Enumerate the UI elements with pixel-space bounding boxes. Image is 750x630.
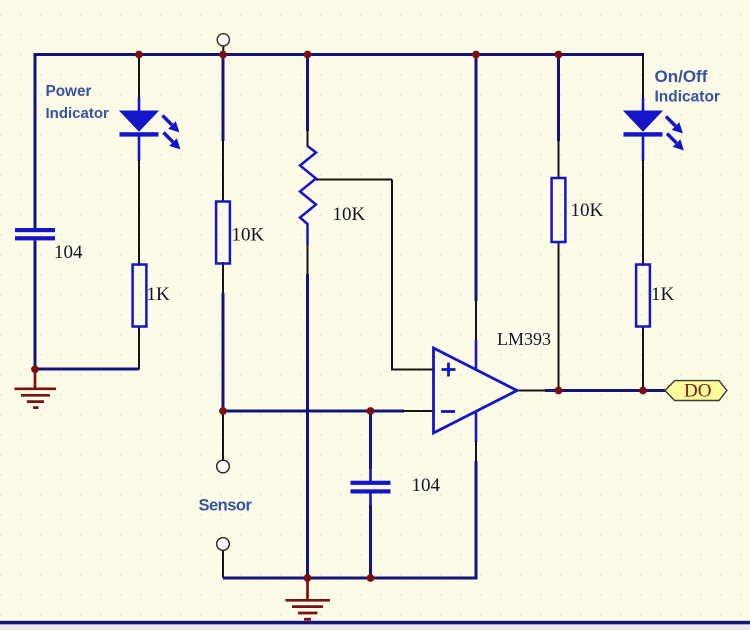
pin sensor terminal 1 <box>222 411 224 460</box>
junction (370,578) <box>367 574 375 582</box>
pin pot bottom <box>307 244 309 275</box>
wire pot bottom to gnd bus <box>306 274 309 578</box>
LED D1 power indicator <box>120 111 180 148</box>
junction (307,55) <box>304 51 312 59</box>
port DO flag <box>665 381 727 402</box>
lead op-amp VCC blue stub <box>475 340 478 370</box>
svg-text:Power: Power <box>46 83 92 100</box>
junction (558,390) <box>555 387 563 395</box>
terminal VCC top <box>217 34 229 54</box>
svg-text:1K: 1K <box>651 284 675 305</box>
pin LED1 to R2 <box>138 160 140 266</box>
wire R3 column top <box>557 55 560 142</box>
junction (370,411) <box>367 407 375 415</box>
pin R1 bottom <box>222 262 224 294</box>
potentiometer RP1 10K zigzag <box>300 146 316 224</box>
lead LED2 cathode blue <box>642 136 645 161</box>
pin LED1 top <box>138 55 140 99</box>
wire R1 column upper (bus to R1) <box>222 55 225 142</box>
sheet bottom border <box>0 621 750 625</box>
wire op-amp power column <box>475 55 478 302</box>
capacitor C1 104 left <box>15 228 55 240</box>
pin op-amp minus input <box>403 410 433 412</box>
junction (476,55) <box>472 51 480 59</box>
junction (35,368) <box>31 365 39 373</box>
svg-text:Indicator: Indicator <box>655 89 720 106</box>
lead LED1 anode blue <box>138 97 141 112</box>
resistor R3 10K right <box>552 178 566 242</box>
svg-text:104: 104 <box>54 242 83 263</box>
junction (558,55) <box>555 51 563 59</box>
wire top bus with left VCC rail <box>35 55 643 229</box>
capacitor C2 104 center <box>351 481 391 494</box>
pin R2 bottom <box>138 326 140 370</box>
wire R1 bottom to minus net <box>222 293 225 411</box>
wire cap2 bottom lead <box>369 505 372 578</box>
svg-text:104: 104 <box>412 475 441 496</box>
junction (223,55) <box>219 51 227 59</box>
terminal sensor 2 <box>217 538 230 551</box>
svg-text:10K: 10K <box>571 200 604 221</box>
wire cap1 bottom lead <box>34 241 37 370</box>
junction (139,55) <box>135 51 143 59</box>
wire bottom gnd bus <box>223 480 476 578</box>
wire wiper vertical <box>391 180 393 370</box>
junction (643,390) <box>639 387 647 395</box>
pin R3 top <box>558 140 560 179</box>
terminal sensor 1 <box>217 460 230 473</box>
op-amp U1 LM393 <box>434 348 518 433</box>
pin op-amp GND <box>475 441 477 462</box>
junction (307,578) <box>304 574 312 582</box>
svg-text:Sensor: Sensor <box>199 497 253 515</box>
pin LED2 top (corner from bus) <box>642 53 644 100</box>
svg-text:Indicator: Indicator <box>46 105 110 122</box>
wire pot wiper to plus input <box>316 179 392 181</box>
pin LED2 to R4 <box>642 160 644 266</box>
lead LED1 cathode blue <box>138 136 141 161</box>
svg-text:1K: 1K <box>147 284 171 305</box>
wire pot column top <box>306 55 309 132</box>
lead op-amp GND blue stub <box>475 411 478 442</box>
resistor R2 1K left <box>133 265 147 327</box>
pin op-amp output <box>517 390 546 392</box>
svg-text:On/Off: On/Off <box>655 67 708 86</box>
resistor R1 10K left-center <box>216 202 230 264</box>
pin R3 bottom <box>558 242 560 391</box>
svg-text:10K: 10K <box>333 204 366 225</box>
pin op-amp VCC <box>475 300 477 341</box>
ground GND1 left <box>15 369 57 408</box>
LED D2 on/off indicator <box>624 111 683 149</box>
pin R4 bottom <box>642 326 644 391</box>
lead pot bottom blue stub <box>306 223 309 245</box>
svg-text:10K: 10K <box>232 225 265 246</box>
pin op-amp plus input <box>391 369 433 371</box>
wire minus net horizontal <box>223 410 404 413</box>
wire gnd horizontal (1K bottom to left ground) <box>35 368 139 371</box>
wire output net to DO port <box>545 389 665 392</box>
pin R1 top <box>222 140 224 202</box>
lead LED2 anode blue <box>642 98 645 112</box>
wire cap2 top lead <box>369 411 372 469</box>
lead cap2 blue stubs <box>369 468 372 481</box>
junction (223,411) <box>219 407 227 415</box>
svg-text:LM393: LM393 <box>497 329 551 349</box>
pin pot top <box>307 130 309 147</box>
resistor R4 1K right <box>636 265 650 327</box>
svg-text:DO: DO <box>684 381 711 402</box>
pin sensor terminal 2 <box>222 551 224 579</box>
ground GND2 bottom center <box>286 578 331 619</box>
